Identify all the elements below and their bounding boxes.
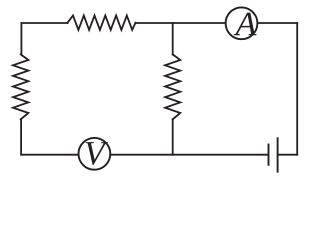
resistor R1 (top horizontal) <box>68 16 136 30</box>
wire right vertical <box>296 23 298 155</box>
wire middle branch upper <box>172 23 174 55</box>
wire left vertical upper <box>20 23 22 55</box>
wire bottom-left segment <box>21 154 78 156</box>
wire top-middle segment <box>136 22 226 24</box>
wire battery-to-right-corner <box>278 154 298 156</box>
ammeter A1 circle <box>226 7 258 39</box>
wire left vertical lower <box>20 119 22 154</box>
voltmeter label V <box>86 142 108 165</box>
wire top-right segment <box>257 22 297 24</box>
ammeter label A <box>234 13 257 36</box>
voltmeter V1 circle <box>79 138 111 170</box>
resistor R2 (left vertical) <box>13 54 28 119</box>
resistor R3 (middle vertical) <box>165 54 180 119</box>
wire top-left segment <box>21 22 67 24</box>
wire bottom-middle segment <box>110 154 268 156</box>
wire middle branch lower <box>172 119 174 154</box>
battery cell positive plate (long bar) <box>277 138 279 171</box>
battery cell negative plate (short bar) <box>268 145 270 165</box>
